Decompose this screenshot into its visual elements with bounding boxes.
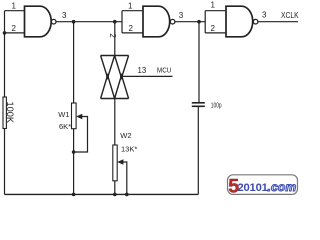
wire left rail down to R1 (4, 33, 6, 97)
wire crystal mid to MCU (122, 75, 173, 77)
svg-text:1: 1 (211, 1, 216, 10)
svg-text:3: 3 (62, 11, 67, 20)
wire W2 bottom to bottom rail (114, 181, 116, 195)
wire U1A input pin 1 lead (5, 10, 25, 12)
wire junction down to crystal top (114, 22, 116, 56)
node crystal mid-left (106, 75, 109, 78)
crystal Y1 top bar (101, 55, 129, 57)
wire crystal bottom to W2 top (114, 99, 116, 146)
nand-gate U1B output bubble (170, 19, 175, 24)
wire U1C input tie (204, 11, 206, 33)
wire U1B input pin 1 lead (122, 10, 143, 12)
potentiometer W2 wiper arrow (121, 162, 127, 194)
node W1 rail junction (72, 193, 76, 197)
svg-text:6K*: 6K* (59, 122, 71, 131)
watermark logo 520101.com (228, 175, 298, 198)
crystal Y1 bottom-left triangle (101, 75, 115, 98)
capacitor C1 top plate (192, 102, 205, 104)
wire U1C input pin 1 lead (205, 10, 226, 12)
svg-text:2: 2 (108, 33, 117, 38)
wire W1 bottom to bottom rail (73, 129, 75, 195)
wire U1B input pin 2 lead (122, 32, 143, 34)
potentiometer W1 wiper arrow (74, 117, 88, 153)
nand-gate U1C body (226, 6, 253, 37)
svg-text:13K*: 13K* (121, 145, 137, 154)
nand-gate U1A body (25, 6, 52, 37)
svg-text:20101: 20101 (238, 182, 268, 194)
svg-text:100K: 100K (5, 102, 15, 124)
svg-text:W2: W2 (120, 131, 131, 140)
svg-text:100p: 100p (211, 100, 222, 109)
svg-text:3: 3 (262, 11, 267, 20)
svg-text:3: 3 (179, 11, 184, 20)
resistor R1 body (3, 97, 6, 129)
svg-text:.com: .com (268, 180, 297, 194)
wire bottom rail (5, 193, 199, 195)
crystal Y1 top-left triangle (101, 56, 115, 78)
node W2 rail junction (113, 193, 117, 197)
crystal Y1 top-right triangle (115, 56, 129, 78)
wire U1A input pin 2 lead (5, 32, 25, 34)
svg-text:2: 2 (12, 24, 17, 33)
wire U1B output to U1C input (175, 21, 205, 23)
svg-text:W1: W1 (58, 110, 69, 119)
node W1 wiper junction (72, 150, 76, 154)
node junction to crystal (113, 20, 117, 24)
wire U1C input pin 2 lead (205, 32, 226, 34)
wire U1A input tie (4, 11, 6, 33)
crystal Y1 bottom bar (101, 98, 129, 100)
wire junction down to C1 (198, 22, 200, 103)
svg-text:1: 1 (12, 2, 17, 11)
crystal Y1 bottom-right triangle (115, 75, 129, 98)
wire C1 bottom to bottom rail (197, 106, 199, 194)
svg-text:MCU: MCU (157, 66, 171, 75)
wire U1B input tie (121, 11, 123, 33)
nand-gate U1B body (143, 6, 170, 37)
wire R1 bottom to bottom rail (4, 129, 6, 195)
svg-text:13: 13 (138, 66, 147, 75)
node junction at U1A input (dot) (3, 31, 7, 35)
wire U1C output to XCLK (258, 21, 298, 23)
potentiometer W2 body (113, 145, 117, 181)
capacitor C1 bottom plate (192, 105, 205, 107)
node junction to W1 (72, 20, 76, 24)
wire junction to W1 top (73, 22, 75, 103)
svg-text:2: 2 (211, 24, 216, 33)
svg-text:1: 1 (128, 2, 133, 11)
node W2 wiper rail junction (125, 193, 129, 197)
nand-gate U1A output bubble (51, 19, 56, 24)
potentiometer W1 body (72, 103, 77, 129)
wire U1A output to U1B input (56, 21, 122, 23)
svg-text:2: 2 (129, 24, 134, 33)
svg-text:XCLK: XCLK (281, 11, 299, 20)
nand-gate U1C output bubble (253, 19, 258, 24)
node crystal mid-right (120, 75, 123, 78)
node junction to C1 (197, 20, 201, 24)
